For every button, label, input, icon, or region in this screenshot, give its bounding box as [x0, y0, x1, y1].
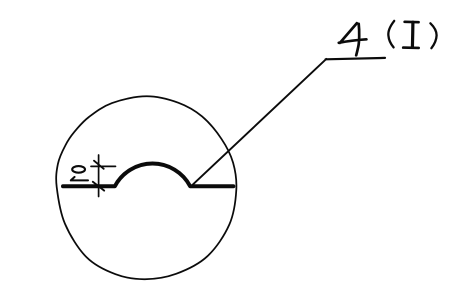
dimension extension line (vertical): [98, 155, 100, 197]
callout digit 4 (handwritten): [339, 23, 367, 55]
callout text (: [388, 21, 394, 48]
oblique arrow tick (top): [94, 161, 104, 169]
surface profile with bump (bold line): [63, 164, 233, 187]
detail view circle: [56, 96, 236, 279]
oblique arrow tick (bottom): [93, 182, 104, 191]
dimension text 10 : digit 0 (rotated): [72, 166, 85, 173]
letter I stem: [411, 22, 415, 47]
dimension tick at bump top level: [91, 165, 116, 167]
leader line from bump to callout: [193, 59, 326, 185]
dimension text 10 : digit 1 (rotated): [71, 177, 88, 181]
leader shelf (underline of callout): [326, 58, 385, 59]
callout letter I (serif): [403, 22, 419, 48]
callout text ): [430, 23, 436, 48]
